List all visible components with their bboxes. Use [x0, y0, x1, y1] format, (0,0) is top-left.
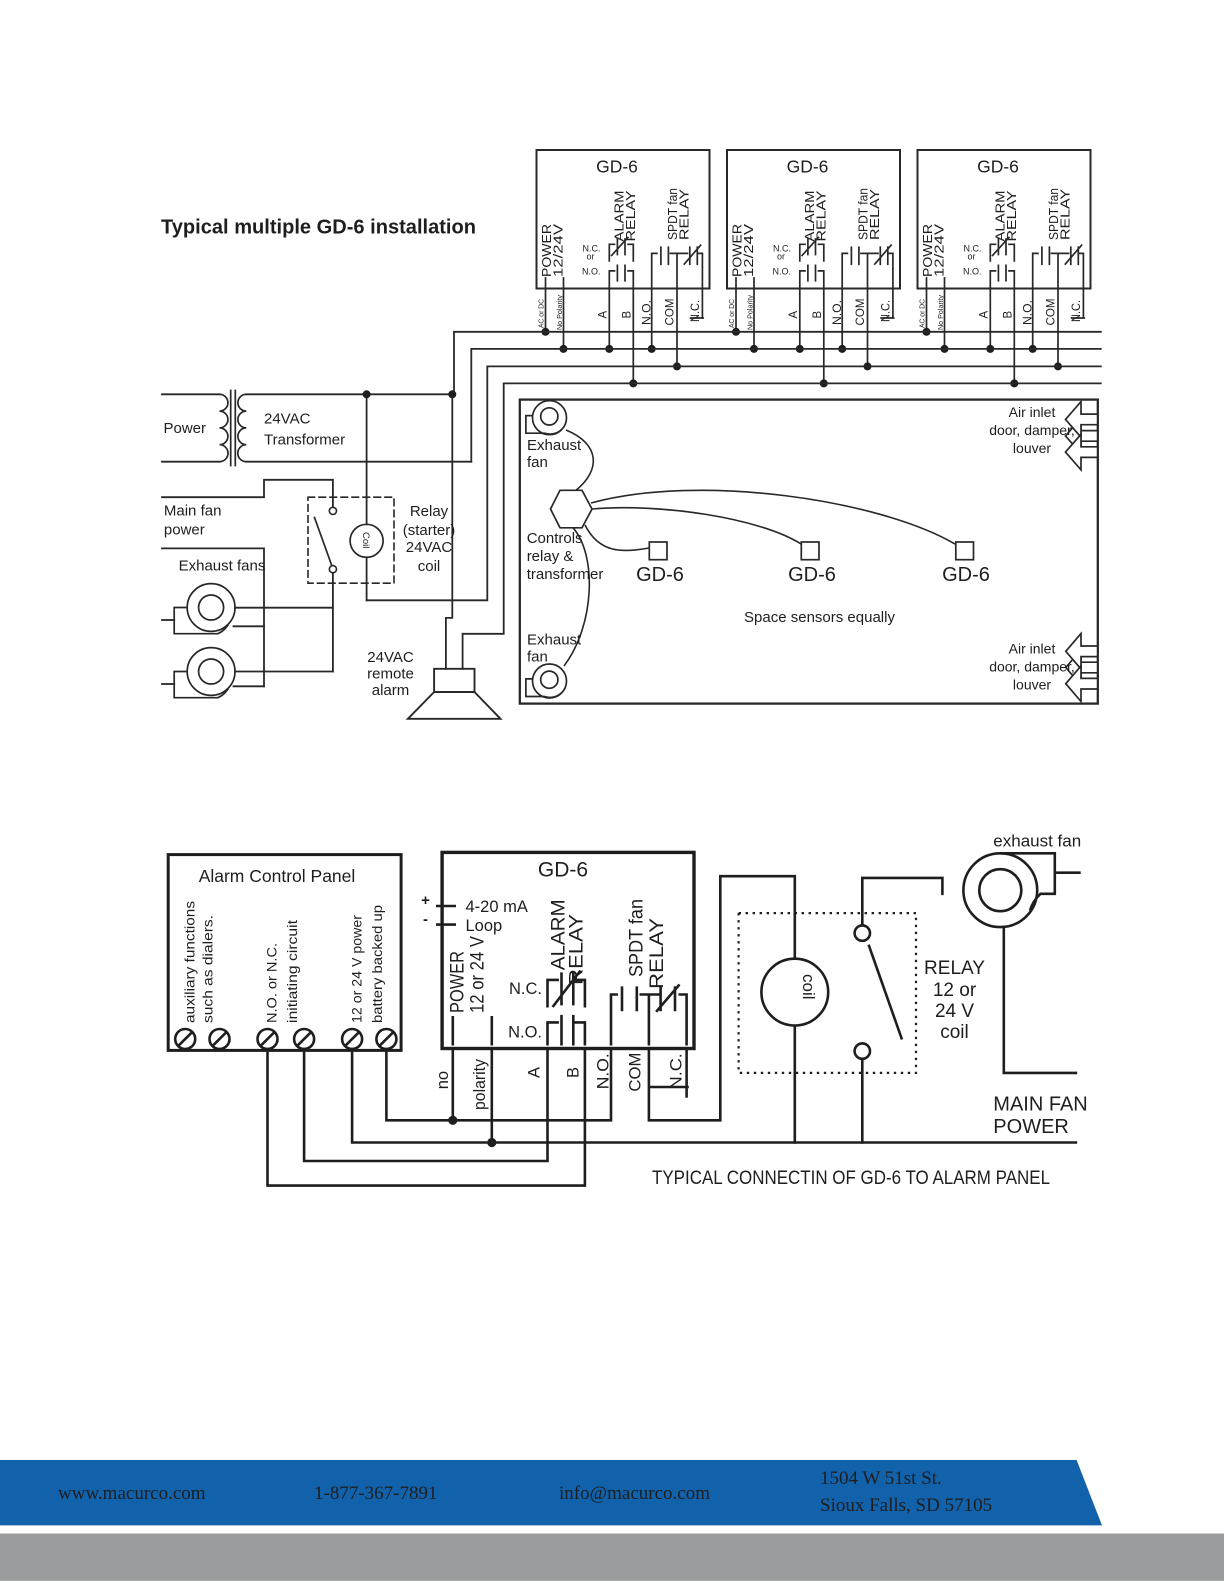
svg-text:(starter): (starter) — [403, 522, 456, 539]
svg-text:Sioux Falls, SD 57105: Sioux Falls, SD 57105 — [820, 1495, 992, 1516]
svg-text:louver: louver — [1013, 440, 1051, 456]
svg-text:24VAC: 24VAC — [367, 649, 414, 666]
svg-text:Typical multiple GD-6 installa: Typical multiple GD-6 installation — [161, 217, 476, 239]
svg-text:GD-6: GD-6 — [788, 564, 836, 586]
switch to fans wire — [332, 573, 334, 672]
label 24VAC remote alarm — [367, 649, 414, 699]
air inlet arrows top (middle behind) — [1066, 402, 1098, 470]
svg-text:SPDT fan: SPDT fan — [627, 899, 648, 977]
svg-text:Main fan: Main fan — [164, 503, 222, 520]
wire COM to relay coil — [649, 876, 795, 1120]
relay coil bottom wire — [366, 557, 368, 600]
footer gray bar — [0, 1534, 1224, 1581]
main fan power wire 2 — [162, 548, 264, 686]
svg-text:such as dialers.: such as dialers. — [201, 915, 216, 1023]
svg-text:Transformer: Transformer — [264, 432, 345, 449]
air inlet arrows bottom (middle behind) — [1066, 634, 1098, 702]
cable curve hexagon to top fan — [566, 430, 593, 490]
svg-text:24VAC: 24VAC — [264, 411, 311, 428]
lower alarm relay N.O. contact — [548, 1015, 585, 1046]
GD-6 sensor square 3 — [956, 542, 974, 560]
remote alarm wire 1 — [446, 394, 452, 669]
svg-text:N.O.: N.O. — [508, 1024, 542, 1042]
junction dot power1 — [448, 1116, 457, 1125]
transformer secondary top wire — [246, 393, 452, 395]
svg-text:door, damper,: door, damper, — [989, 659, 1075, 675]
junction dot coil tap — [363, 390, 371, 398]
svg-text:fan: fan — [527, 454, 548, 471]
svg-text:coil: coil — [799, 974, 818, 1000]
junction dot power2 — [487, 1138, 496, 1147]
svg-text:power: power — [164, 522, 205, 539]
svg-text:N.O. or N.C.: N.O. or N.C. — [265, 943, 280, 1023]
wire N.O. to battery terminal — [386, 1049, 611, 1121]
svg-text:-: - — [423, 911, 428, 928]
svg-text:polarity: polarity — [471, 1058, 489, 1110]
svg-text:remote: remote — [367, 666, 414, 683]
svg-text:12 or 24 V: 12 or 24 V — [468, 936, 489, 1013]
svg-text:24 V: 24 V — [935, 1001, 974, 1022]
lower SPDT fan relay contacts — [611, 985, 687, 1046]
transformer primary coil — [220, 394, 229, 461]
svg-text:louver: louver — [1013, 677, 1051, 693]
svg-text:B: B — [565, 1067, 583, 1078]
svg-text:4-20 mA: 4-20 mA — [466, 898, 528, 916]
wire A to initiating terminal — [304, 1049, 547, 1162]
switch bottom wire lower — [861, 1059, 864, 1143]
GD-6 detector unit 3 — [918, 150, 1091, 387]
GD-6 sensor square 2 — [801, 542, 819, 560]
svg-text:RELAY: RELAY — [647, 918, 668, 989]
svg-text:fan: fan — [527, 649, 548, 666]
footer blue banner — [0, 1460, 1102, 1525]
svg-text:Air inlet: Air inlet — [1009, 641, 1056, 657]
svg-text:relay &: relay & — [527, 548, 574, 565]
svg-text:GD-6: GD-6 — [942, 564, 990, 586]
svg-text:A: A — [526, 1067, 544, 1078]
svg-text:Alarm Control Panel: Alarm Control Panel — [199, 866, 356, 886]
GD-6 detector unit 1 — [537, 150, 710, 387]
exhaust fan 1 right leads — [234, 608, 333, 627]
svg-text:COM: COM — [626, 1053, 644, 1092]
exhaust fan bottom wire lower — [1004, 927, 1076, 1073]
svg-text:MAIN FAN: MAIN FAN — [993, 1094, 1087, 1116]
wire N.C. stub — [685, 1049, 688, 1097]
bus wire 4 (B bus) — [463, 383, 1101, 668]
cable curve hexagon to sensor 3 — [591, 490, 955, 544]
equipment room enclosure — [520, 400, 1098, 704]
lower relay dotted outline — [739, 913, 916, 1073]
svg-text:TYPICAL CONNECTIN OF GD-6 TO A: TYPICAL CONNECTIN OF GD-6 TO ALARM PANEL — [652, 1167, 1050, 1189]
cable curve hexagon to sensor 2 — [592, 508, 801, 544]
bus wire 2 (power line 2) — [471, 349, 1101, 462]
cable curve hexagon to sensor 1 — [585, 525, 649, 551]
svg-text:24VAC: 24VAC — [406, 539, 453, 556]
svg-text:auxiliary functions: auxiliary functions — [183, 901, 198, 1023]
svg-text:alarm: alarm — [372, 682, 410, 699]
bus wire 1 (power line 1) — [454, 332, 1101, 395]
wire B to N.O./N.C. terminal — [268, 1049, 585, 1186]
svg-text:Space sensors equally: Space sensors equally — [744, 609, 895, 626]
svg-text:Coil: Coil — [360, 532, 371, 548]
N.C. emphasis tick — [650, 1086, 688, 1089]
lower switch top contact — [855, 925, 870, 940]
svg-text:transformer: transformer — [527, 566, 604, 583]
wire power1 — [451, 1049, 454, 1121]
cable curve hexagon to bottom fan — [564, 528, 589, 666]
svg-text:12 or: 12 or — [933, 980, 977, 1001]
svg-text:Loop: Loop — [466, 917, 503, 935]
svg-text:Controls: Controls — [527, 530, 583, 547]
enclosure exhaust fan bottom symbol — [526, 664, 567, 698]
svg-text:Air inlet: Air inlet — [1009, 404, 1056, 420]
exhaust fan 1 symbol — [174, 584, 235, 634]
svg-text:initiating circuit: initiating circuit — [285, 920, 300, 1023]
svg-text:Exhaust: Exhaust — [527, 437, 582, 454]
exhaust fan 2 symbol — [174, 648, 235, 698]
label Relay (starter) 24VAC coil — [403, 503, 456, 575]
svg-text:www.macurco.com: www.macurco.com — [58, 1483, 206, 1504]
relay coil circle — [350, 524, 383, 557]
svg-text:exhaust fan: exhaust fan — [993, 832, 1081, 851]
controls hexagon — [551, 490, 593, 528]
svg-text:N.C.: N.C. — [668, 1053, 686, 1089]
transformer secondary coil — [238, 394, 247, 461]
transformer primary bottom lead — [162, 461, 220, 463]
svg-text:12 or 24 V power: 12 or 24 V power — [349, 914, 364, 1023]
svg-text:battery backed up: battery backed up — [370, 905, 385, 1023]
GD-6 lower box — [442, 852, 694, 1048]
label Air inlet door, damper, louver top — [989, 404, 1075, 456]
GD-6 detector unit 2 — [727, 150, 900, 387]
main fan power wire 1 — [162, 480, 333, 508]
svg-text:POWER: POWER — [993, 1116, 1069, 1138]
transformer primary top lead — [162, 393, 220, 395]
relay coil bottom wire lower — [793, 1026, 796, 1143]
transformer secondary bottom wire — [246, 461, 471, 463]
svg-text:RELAY: RELAY — [924, 958, 985, 979]
svg-text:N.O.: N.O. — [594, 1053, 612, 1089]
label RELAY 12 or 24 V coil — [924, 958, 985, 1043]
lower relay coil circle — [761, 959, 828, 1026]
svg-text:GD-6: GD-6 — [636, 564, 684, 586]
svg-text:+: + — [421, 892, 430, 909]
svg-text:Exhaust fans: Exhaust fans — [179, 558, 266, 575]
svg-text:Relay: Relay — [410, 503, 449, 520]
svg-text:info@macurco.com: info@macurco.com — [559, 1483, 710, 1504]
exhaust fan 2 left lead — [162, 683, 174, 685]
bus wire 3 (fan relay COM bus) — [367, 366, 1101, 600]
svg-text:1-877-367-7891: 1-877-367-7891 — [314, 1483, 437, 1504]
alarm control panel box — [168, 855, 401, 1051]
lower exhaust fan symbol — [963, 853, 1054, 927]
label Air inlet door, damper, louver bottom — [989, 641, 1075, 693]
24VAC remote alarm speaker — [408, 669, 501, 719]
lower switch blade — [869, 945, 902, 1040]
lower wiring — [268, 873, 1080, 1186]
svg-text:N.C.: N.C. — [509, 980, 542, 998]
svg-text:coil: coil — [940, 1022, 969, 1043]
exhaust fan right lead lower — [1055, 871, 1080, 874]
switch top wire lower — [862, 878, 942, 926]
lower switch bottom contact — [855, 1043, 870, 1058]
panel screw terminals — [175, 1029, 396, 1049]
transformer core — [231, 391, 236, 466]
relay dashed outline — [308, 497, 394, 583]
relay switch bottom contact — [329, 566, 336, 573]
svg-text:coil: coil — [418, 558, 441, 575]
wire 12/24V power rail — [352, 1049, 1076, 1143]
4-20 mA loop terminals — [436, 906, 456, 925]
svg-text:1504 W 51st St.: 1504 W 51st St. — [820, 1468, 942, 1489]
svg-text:door, damper,: door, damper, — [989, 422, 1075, 438]
enclosure exhaust fan top symbol — [526, 401, 567, 435]
svg-text:Exhaust: Exhaust — [527, 632, 582, 649]
GD-6 sensor square 1 — [649, 542, 667, 560]
wire power2 — [490, 1049, 493, 1143]
svg-text:Power: Power — [164, 420, 207, 437]
lower alarm relay N.C. contact — [548, 971, 585, 1008]
terminal screw slots — [178, 1032, 393, 1046]
svg-text:GD-6: GD-6 — [538, 859, 588, 882]
svg-text:no: no — [434, 1071, 452, 1089]
junction dot transformer/bus1 — [448, 390, 456, 398]
svg-text:POWER: POWER — [447, 951, 468, 1013]
relay switch top contact — [329, 507, 336, 514]
relay switch blade — [315, 518, 332, 565]
exhaust fan 2 right leads — [234, 672, 333, 687]
relay coil tap wire — [366, 394, 368, 524]
lower power leads inside box — [453, 1016, 492, 1046]
exhaust fan 1 left lead — [162, 619, 174, 621]
